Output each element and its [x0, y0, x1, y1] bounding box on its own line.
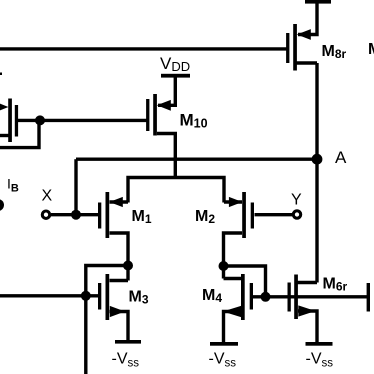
junction dot gate M9/M10 — [35, 115, 45, 125]
wire M6r source lead to Vss — [298, 311, 317, 344]
wire M8r source to top supply — [298, 2, 317, 35]
wire M3 source lead to Vss — [110, 312, 129, 342]
wire Y lead — [255, 213, 293, 216]
transistor M8r — [286, 24, 311, 71]
transistor M9 (partial, left edge) — [0, 99, 18, 143]
svg-text:A: A — [335, 148, 347, 167]
wire M4/M6r gate rail to right transistor — [253, 295, 368, 298]
wire M8r drain lead — [297, 61, 318, 64]
transistor M10 — [146, 94, 171, 136]
wire top rail to M8r gate — [0, 47, 287, 50]
current source bullet IB (left edge) — [0, 199, 4, 211]
wire node A vertical M8r drain to M6r drain — [315, 63, 318, 283]
wire M3 drain lead — [110, 279, 129, 282]
junction dot node A — [312, 154, 323, 165]
wire VDD vertical to M10 source — [158, 76, 175, 105]
wire M9 bottom lead — [0, 134, 9, 137]
terminal X — [42, 211, 49, 218]
wire M4 source lead to Vss — [224, 312, 242, 344]
wire M2 source lead down to node — [224, 233, 243, 279]
stray mark left edge — [0, 73, 2, 76]
Vss ground bar under M3 — [115, 340, 141, 344]
wire branch node to M4 gate column — [224, 266, 266, 297]
transistor M1 — [98, 192, 123, 238]
wire M2 top lead and drop — [224, 200, 242, 203]
svg-text:M: M — [368, 41, 374, 58]
wire M4 drain lead — [224, 277, 242, 280]
gate bar of cut-off transistor M5r (right edge) — [367, 283, 370, 312]
supply bar above M8r — [305, 0, 331, 4]
svg-text:Y: Y — [291, 192, 302, 209]
wire vertical from node-A wire down to X node — [74, 159, 77, 216]
wire M10 drain lead and drop — [157, 134, 175, 178]
wire M1 top lead — [110, 200, 129, 203]
transistor M3 — [98, 274, 125, 320]
junction dot M2 source / M4 drain — [219, 261, 229, 271]
Vss ground bar under M4 — [210, 342, 238, 346]
transistor M6r — [288, 275, 316, 320]
svg-text:X: X — [42, 188, 53, 205]
wire branch node to M3 gate column — [86, 266, 128, 374]
VDD supply bar — [161, 74, 190, 78]
wire node A horizontal — [76, 157, 317, 160]
junction dot X node — [71, 210, 81, 220]
terminal Y — [293, 211, 300, 218]
wire M6r drain lead — [298, 281, 318, 284]
junction dot M4/M6r gate — [261, 292, 271, 302]
transistor M4 — [223, 274, 253, 320]
wire differential-pair drain bar — [128, 178, 224, 203]
transistor M2 — [229, 192, 254, 238]
junction dot M1 source / M3 drain — [123, 261, 133, 271]
wire diode-connect L from node down-left — [0, 120, 39, 147]
wire X lead — [51, 213, 99, 216]
Vss ground bar under M6r — [306, 342, 333, 346]
junction dot M3 gate rail — [81, 291, 91, 301]
wire M1 source lead down to node — [110, 233, 129, 281]
wire M3 gate rail from left edge — [0, 294, 99, 297]
wire gate M9/M10 — [17, 119, 147, 122]
